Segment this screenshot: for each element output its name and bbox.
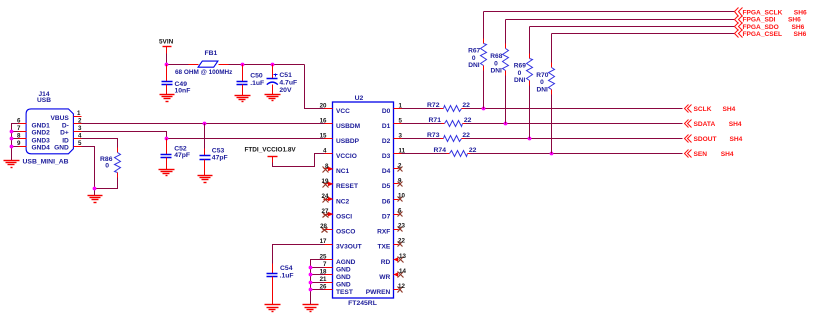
svg-text:FT245RL: FT245RL [348, 300, 377, 307]
svg-text:USB: USB [37, 97, 51, 104]
wire SCLK net [465, 108, 683, 110]
off-page connector FPGA_SDO [735, 23, 805, 31]
svg-text:SH4: SH4 [721, 151, 734, 158]
label C54 value [280, 265, 294, 280]
off-page connector FPGA_SDI [735, 16, 802, 24]
pin 7 GND stub [323, 261, 332, 268]
pin 9 GND stub [17, 140, 26, 147]
svg-text:R71: R71 [429, 117, 442, 124]
svg-text:TEST: TEST [336, 289, 353, 296]
svg-text:17: 17 [320, 238, 327, 245]
wire SDOUT net [465, 138, 683, 140]
wire VCCIO [273, 154, 325, 167]
svg-text:14: 14 [399, 268, 406, 275]
svg-text:U2: U2 [355, 95, 364, 102]
svg-text:9: 9 [398, 177, 402, 184]
svg-text:RESET: RESET [336, 183, 358, 190]
ground under C52 [159, 170, 175, 176]
pin 1 D0 stub [394, 102, 403, 109]
label C49 value [175, 81, 191, 94]
svg-text:0: 0 [518, 70, 522, 77]
junction gnd bus 26 [309, 288, 313, 292]
svg-text:15: 15 [320, 133, 327, 140]
svg-text:SH4: SH4 [729, 121, 742, 128]
svg-text:5VIN: 5VIN [159, 39, 174, 46]
pin 5 stub [74, 140, 83, 147]
svg-text:4.7uF: 4.7uF [279, 80, 297, 87]
svg-text:12: 12 [398, 283, 405, 290]
pin 20 VCC stub [320, 102, 333, 109]
label R74 value [434, 147, 477, 154]
wire FPGA_SCLK horizontal [484, 11, 735, 13]
svg-text:FPGA_CSEL: FPGA_CSEL [743, 31, 783, 38]
svg-text:18: 18 [320, 268, 327, 275]
pin 14 WR no-connect [394, 268, 407, 278]
svg-text:D7: D7 [382, 213, 391, 220]
wire FPGA_SDO horizontal [530, 26, 735, 28]
svg-text:D1: D1 [382, 123, 391, 130]
label R86 value [100, 156, 113, 170]
net label 5VIN [159, 39, 174, 46]
svg-text:.1uF: .1uF [250, 80, 264, 87]
off-page connector FPGA_SCLK [735, 8, 807, 17]
svg-text:0: 0 [472, 55, 476, 62]
label C51 value [279, 72, 297, 94]
svg-text:DNI: DNI [468, 62, 480, 69]
IC U2 right pin names [366, 108, 391, 296]
pin 6 D7 no-connect [394, 208, 403, 217]
svg-text:DNI: DNI [490, 68, 502, 75]
svg-text:D2: D2 [382, 138, 391, 145]
svg-text:8: 8 [325, 163, 329, 170]
pin 3 D2 stub [394, 133, 403, 140]
resistor R73 [441, 136, 465, 142]
svg-text:0: 0 [105, 163, 109, 170]
svg-text:SH6: SH6 [794, 9, 807, 16]
svg-text:AGND: AGND [336, 259, 356, 266]
ground under C51 [265, 95, 281, 101]
svg-text:25: 25 [320, 253, 327, 260]
resistor R71 [442, 121, 466, 127]
svg-text:C53: C53 [212, 147, 225, 154]
label C53 value [212, 147, 228, 161]
off-page connector SDATA [685, 120, 742, 129]
svg-text:13: 13 [399, 253, 406, 260]
svg-text:47pF: 47pF [174, 152, 190, 159]
svg-text:R67: R67 [468, 48, 480, 55]
svg-text:OSCI: OSCI [336, 213, 352, 220]
svg-text:4: 4 [323, 148, 327, 155]
pin 15 USBDP stub [320, 133, 333, 140]
svg-text:47pF: 47pF [212, 154, 228, 161]
wire 5VIN rail left [167, 64, 189, 66]
pin 10 D6 no-connect [394, 192, 406, 201]
pin 16 USBDM stub [320, 118, 333, 125]
resistor R67 DNI [481, 39, 487, 71]
svg-text:28: 28 [320, 223, 327, 230]
label R73 value [427, 132, 470, 139]
wire 5V rail to C50 C51 [229, 64, 305, 66]
pin 28 OSCO no-connect [320, 223, 332, 232]
svg-text:PWREN: PWREN [366, 289, 391, 296]
label FB1 [205, 50, 218, 57]
svg-text:C50: C50 [250, 72, 263, 79]
svg-text:0: 0 [540, 79, 544, 86]
junction C50 node [241, 63, 245, 67]
label R71 value [429, 117, 472, 124]
ground under R86 [88, 196, 103, 203]
svg-text:SDOUT: SDOUT [694, 136, 717, 143]
svg-text:21: 21 [320, 276, 327, 283]
pin 25 AGND stub [320, 253, 333, 260]
svg-text:RD: RD [381, 259, 391, 266]
svg-text:D3: D3 [382, 153, 391, 160]
label R70 value [536, 72, 548, 94]
svg-text:10nF: 10nF [175, 88, 191, 95]
svg-text:D5: D5 [382, 183, 391, 190]
label C50 value [250, 72, 264, 87]
wire 5V rail to VCC pin [305, 65, 325, 109]
svg-text:0: 0 [494, 61, 498, 68]
pin 24 NC2 no-connect [322, 193, 334, 203]
svg-text:GND4: GND4 [32, 145, 51, 152]
svg-text:R73: R73 [427, 132, 440, 139]
svg-text:22: 22 [398, 238, 405, 245]
capacitor C49 [162, 65, 173, 95]
label J14 USB [37, 97, 51, 104]
svg-text:VBUS: VBUS [50, 115, 69, 122]
junction 5VIN node [165, 63, 169, 67]
wire D2 to R73 [402, 138, 441, 140]
label U2 FT245RL [348, 300, 377, 307]
svg-text:FB1: FB1 [205, 50, 218, 57]
capacitor C52 [161, 139, 172, 170]
junction J14 gnd 8 [10, 137, 14, 141]
ground under C49 [160, 95, 175, 102]
svg-text:20: 20 [320, 102, 327, 109]
capacitor C54 [267, 264, 278, 305]
svg-text:ID: ID [62, 137, 69, 144]
wire D1 to R71 [402, 123, 442, 125]
junction SCLK node [482, 107, 486, 111]
svg-text:23: 23 [398, 223, 405, 230]
pin 18 GND stub [320, 268, 333, 275]
svg-text:22: 22 [462, 102, 470, 109]
junction J14 gnd 7 [10, 130, 14, 134]
junction SDOUT node [528, 137, 532, 141]
junction C51 node [271, 63, 275, 67]
svg-text:R69: R69 [514, 63, 526, 70]
svg-text:7: 7 [17, 125, 21, 132]
power flag FTDI_VCCIO [268, 157, 278, 163]
svg-text:10: 10 [398, 192, 405, 199]
off-page connector SCLK [685, 105, 736, 114]
svg-text:SDATA: SDATA [694, 121, 716, 128]
junction gnd bus 21 [309, 281, 313, 285]
wire SDATA net [466, 123, 683, 125]
pin 6 GND stub [17, 118, 26, 125]
wire FPGA_SCLK vertical [483, 12, 485, 109]
off-page connector FPGA_CSEL [735, 30, 807, 39]
capacitor C53 [200, 124, 211, 176]
pin 1 VBUS stub [74, 110, 82, 117]
label C52 value [174, 145, 190, 159]
wire 5VIN stem [166, 54, 168, 65]
pin 2 stub [74, 118, 83, 125]
svg-text:4: 4 [78, 133, 82, 140]
svg-text:24: 24 [322, 193, 329, 200]
pin 3 stub [74, 125, 83, 132]
svg-text:D4: D4 [382, 168, 391, 175]
svg-text:SH6: SH6 [788, 17, 801, 24]
resistor R72 [441, 106, 465, 112]
svg-text:68 OHM @ 100MHz: 68 OHM @ 100MHz [175, 69, 232, 76]
svg-text:19: 19 [322, 178, 329, 185]
wire FPGA_CSEL horizontal [552, 33, 735, 35]
label USB_MINI_AB [23, 159, 69, 166]
wire D0 to R72 [402, 108, 441, 110]
wire SEN net [471, 153, 683, 155]
svg-text:R74: R74 [434, 147, 447, 154]
svg-text:VCC: VCC [336, 108, 350, 115]
svg-text:SCLK: SCLK [694, 106, 712, 113]
resistor R70 DNI [549, 63, 555, 95]
svg-text:27: 27 [322, 208, 329, 215]
svg-text:5: 5 [78, 140, 82, 147]
svg-text:NC2: NC2 [336, 198, 350, 205]
off-page connector SEN [685, 150, 734, 159]
svg-text:R70: R70 [536, 72, 548, 79]
svg-text:C51: C51 [279, 72, 292, 79]
svg-text:3V3OUT: 3V3OUT [336, 244, 362, 251]
label U2 [355, 95, 364, 102]
label FB1 value [175, 69, 232, 76]
pin 26 TEST stub [320, 283, 333, 290]
resistor R86 [115, 148, 121, 178]
svg-text:16: 16 [320, 118, 327, 125]
svg-text:D-: D- [62, 122, 69, 129]
svg-text:SH4: SH4 [723, 106, 736, 113]
resistor R74 [447, 151, 471, 157]
svg-text:GND3: GND3 [32, 137, 51, 144]
svg-text:DNI: DNI [514, 77, 526, 84]
ground under C53 [198, 176, 213, 183]
wire USBDM [82, 123, 325, 125]
svg-text:USBDP: USBDP [336, 138, 360, 145]
svg-text:FPGA_SCLK: FPGA_SCLK [743, 9, 783, 16]
svg-text:GND: GND [54, 145, 69, 152]
pin 4 stub [74, 133, 83, 140]
svg-text:26: 26 [320, 283, 327, 290]
off-page connector SDOUT [685, 135, 743, 144]
svg-text:R68: R68 [490, 53, 502, 60]
svg-text:9: 9 [17, 140, 21, 147]
svg-text:VCCIO: VCCIO [336, 153, 357, 160]
junction gnd bus 18 [309, 273, 313, 277]
IC U2 body [333, 102, 394, 298]
connector J14 body [26, 109, 73, 154]
wire D3 to R74 [402, 153, 447, 155]
svg-text:GND: GND [336, 274, 351, 281]
capacitor C51 [267, 65, 278, 95]
pin 8 NC1 no-connect [323, 163, 334, 173]
svg-text:GND: GND [336, 281, 351, 288]
svg-text:TXE: TXE [377, 244, 390, 251]
svg-text:C54: C54 [280, 265, 293, 272]
pin 27 OSCI no-connect [322, 208, 334, 217]
svg-text:FPGA_SDO: FPGA_SDO [743, 24, 779, 31]
pin 21 GND stub [320, 276, 333, 283]
pin 23 RXF no-connect [394, 223, 406, 232]
svg-text:GND2: GND2 [32, 130, 51, 137]
pin 12 PWREN no-connect [394, 283, 406, 293]
ground under U2 [303, 305, 319, 312]
wire FPGA_SDI horizontal [506, 19, 735, 21]
wire U2 ground bus [311, 260, 325, 305]
pin 9 D5 no-connect [394, 177, 403, 186]
svg-text:NC1: NC1 [336, 168, 350, 175]
svg-text:RXF: RXF [377, 229, 390, 236]
svg-text:20V: 20V [279, 87, 292, 94]
svg-text:SH6: SH6 [794, 31, 807, 38]
wire J14 ground bus [12, 124, 19, 161]
junction gnd bus 7 [309, 266, 313, 270]
svg-text:2: 2 [398, 162, 402, 169]
wire J14 GND pin5 [82, 147, 95, 196]
pin 13 RD no-connect [394, 253, 407, 263]
svg-text:D0: D0 [382, 108, 391, 115]
wire USBDP [82, 132, 325, 139]
IC U2 left pin names [336, 108, 362, 296]
svg-text:GND1: GND1 [32, 122, 51, 129]
wire FPGA_SDO vertical [529, 27, 531, 139]
ground under C54 [265, 305, 281, 312]
pin 17 3V3OUT stub [320, 238, 333, 245]
junction J14 gnd 9 [10, 145, 14, 149]
ground under C50 [235, 96, 251, 102]
power flag 5VIN [163, 47, 172, 54]
pin 2 D4 no-connect [394, 162, 403, 171]
net label FTDI_VCCIO1.8V [245, 147, 297, 154]
junction C52 node [165, 137, 169, 141]
svg-text:6: 6 [398, 208, 402, 215]
junction SEN node [550, 152, 554, 156]
svg-text:SEN: SEN [694, 151, 708, 158]
svg-text:FTDI_VCCIO1.8V: FTDI_VCCIO1.8V [245, 147, 297, 154]
capacitor C50 [237, 65, 248, 96]
label J14 [38, 91, 49, 98]
wire 3V3OUT [273, 245, 325, 264]
wire FPGA_SDI vertical [505, 20, 507, 124]
pin 19 RESET no-connect [322, 178, 334, 188]
label R72 value [427, 102, 470, 109]
ground at J14 [4, 161, 20, 168]
resistor R68 DNI [503, 44, 509, 76]
svg-text:USBDM: USBDM [336, 123, 361, 130]
svg-text:SH4: SH4 [730, 136, 743, 143]
svg-text:GND: GND [336, 266, 351, 273]
pin 22 TXE no-connect [394, 238, 406, 247]
resistor R69 DNI [527, 54, 533, 86]
svg-text:SH6: SH6 [792, 24, 805, 31]
label R68 value [490, 53, 502, 74]
svg-text:7: 7 [323, 261, 327, 268]
svg-text:DNI: DNI [536, 86, 548, 93]
junction C53 node [203, 122, 207, 126]
pin 8 GND stub [17, 133, 26, 140]
pin 11 D3 stub [394, 148, 406, 155]
svg-text:D+: D+ [60, 130, 69, 137]
ferrite bead FB1 [189, 61, 229, 67]
svg-text:WR: WR [379, 274, 390, 281]
connector J14 pin names [32, 115, 70, 152]
junction R86 gnd node [93, 187, 97, 191]
svg-text:R72: R72 [427, 102, 440, 109]
svg-text:USB_MINI_AB: USB_MINI_AB [23, 159, 69, 166]
label R67 value [468, 48, 480, 70]
junction SDATA node [504, 122, 508, 126]
svg-text:1: 1 [77, 110, 81, 117]
label R69 value [514, 63, 526, 85]
wire R86 to ground [95, 178, 118, 189]
svg-text:D6: D6 [382, 198, 391, 205]
wire FPGA_CSEL vertical [551, 34, 553, 154]
svg-text:.1uF: .1uF [280, 273, 294, 280]
pin 7 GND stub [17, 125, 26, 132]
svg-text:3: 3 [78, 125, 82, 132]
svg-text:FPGA_SDI: FPGA_SDI [743, 17, 776, 24]
wire ID to R86 [82, 139, 118, 148]
pin 5 D1 stub [394, 118, 403, 125]
pin 4 VCCIO stub [323, 148, 332, 155]
svg-text:2: 2 [78, 118, 82, 125]
svg-text:OSCO: OSCO [336, 229, 355, 236]
